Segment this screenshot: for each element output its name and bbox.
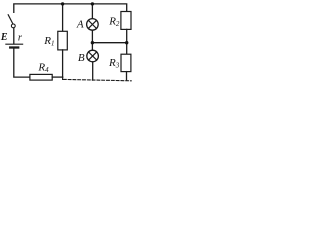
node junction middle right bbox=[125, 41, 128, 44]
wire R1 branch from top rail bbox=[62, 4, 64, 32]
wire R1 to bottom rail bbox=[62, 50, 64, 77]
wire middle link between lamp branch and resistor branch bbox=[93, 42, 127, 44]
resistor R2 box bbox=[121, 12, 131, 30]
wire top rail with left stub and right corner bbox=[14, 4, 127, 12]
node junction top lamp branch bbox=[91, 2, 94, 5]
battery E short thick plate bbox=[10, 46, 18, 48]
wire R4 to node at R1 branch bbox=[52, 76, 62, 78]
svg-text:E: E bbox=[0, 32, 8, 43]
switch S lever bbox=[8, 15, 13, 24]
lamp B cross bbox=[89, 52, 97, 60]
wire lamp A to lamp B bbox=[91, 30, 93, 50]
wire dashed bottom rail bbox=[62, 77, 64, 79]
svg-text:B: B bbox=[78, 52, 85, 64]
battery E long plate bbox=[6, 43, 23, 45]
lamp A cross bbox=[88, 20, 96, 28]
wire R2 to middle node bbox=[126, 29, 128, 42]
switch contact circle bbox=[11, 24, 15, 28]
wire lamp branch from top rail bbox=[91, 4, 93, 19]
lamp A circle bbox=[87, 19, 99, 31]
resistor R1 box bbox=[58, 31, 68, 50]
wire battery down to bottom-left corner and to R4 bbox=[14, 48, 30, 77]
svg-text:A: A bbox=[76, 18, 84, 30]
node junction top R1 bbox=[61, 2, 64, 5]
wire middle node to R3 bbox=[126, 43, 128, 55]
lamp B circle bbox=[87, 50, 99, 62]
resistor R3 box bbox=[121, 54, 131, 71]
resistor R4 box bbox=[30, 74, 52, 80]
wire lamp B to dashed bottom bbox=[92, 62, 94, 80]
node junction middle left bbox=[91, 41, 94, 44]
wire switch to battery bbox=[13, 28, 15, 44]
wire R3 to dashed bottom bbox=[126, 72, 128, 81]
